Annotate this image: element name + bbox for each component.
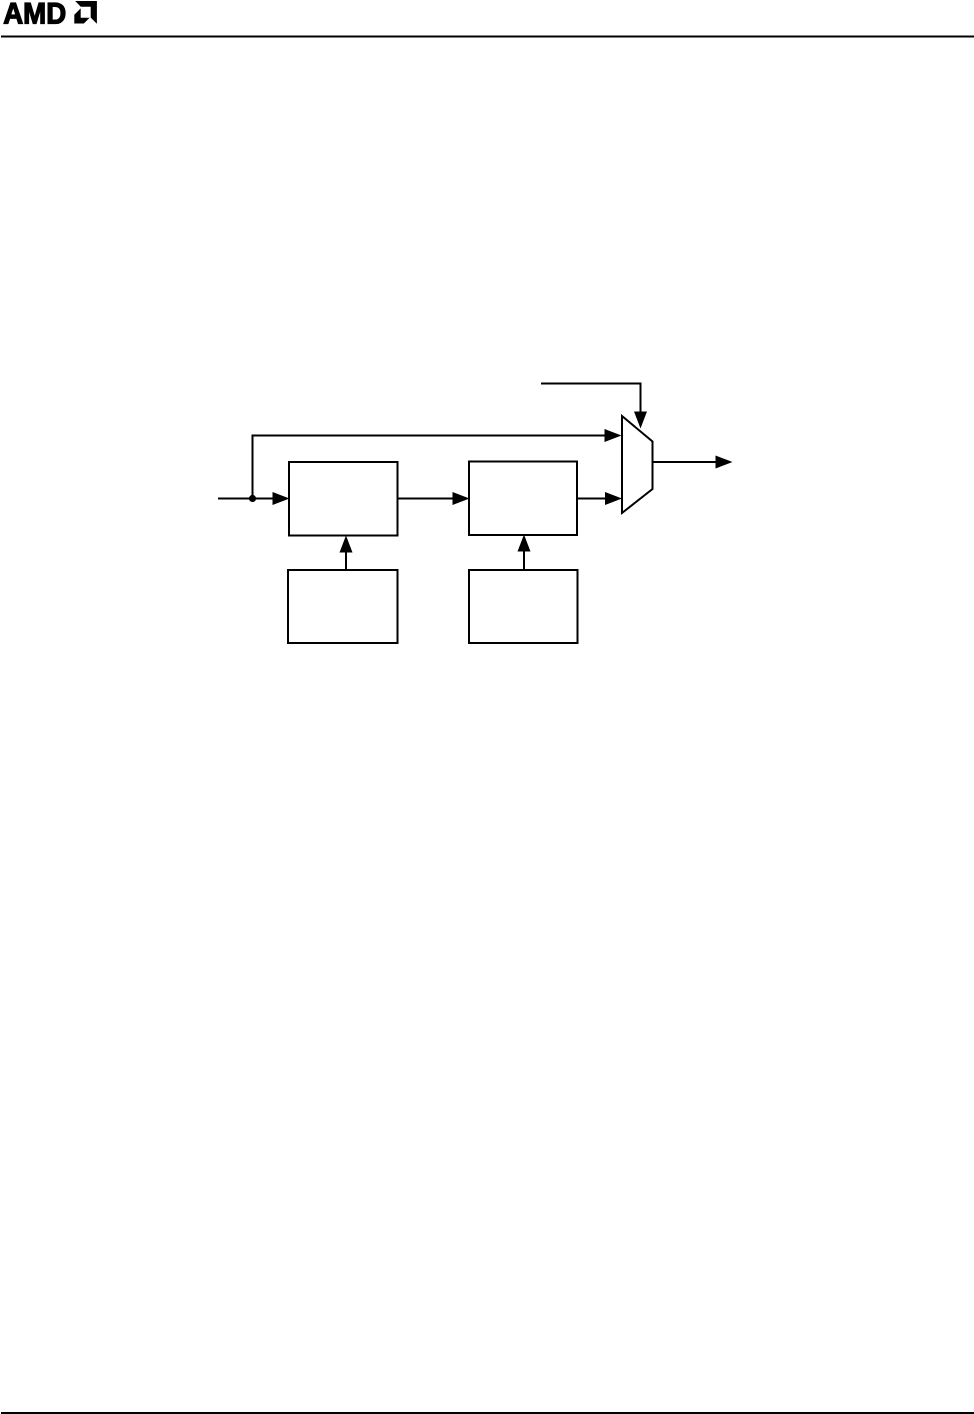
box 2 [469,462,577,536]
output wire arrowhead [716,456,733,469]
svg-text:AMD: AMD [3,0,66,30]
mux [622,416,653,513]
wire box2 to mux [577,498,608,500]
output wire [653,461,719,463]
AMD logo arrow symbol upper band [75,1,97,24]
select wire [541,384,641,415]
AMD logo arrow symbol lower wedge [74,8,89,23]
input wire [218,498,275,500]
header rule [1,36,974,38]
bypass wire from junction to mux [253,436,607,499]
select wire arrowhead [634,412,647,429]
junction node dot [249,495,256,502]
wire box4 to box2 [523,548,525,570]
box 1 [289,462,398,536]
box 3 [288,570,398,643]
arrowhead box1 to box2 [453,492,470,505]
input wire arrowhead [273,492,290,505]
footer rule [1,1412,974,1414]
arrowhead box2 to mux [605,492,622,505]
arrowhead box3 to box1 [340,536,353,553]
wire box3 to box1 [345,549,347,570]
box 4 [469,570,578,643]
bypass wire arrowhead [605,429,622,442]
arrowhead box4 to box2 [518,535,531,552]
wire box1 to box2 [398,498,456,500]
